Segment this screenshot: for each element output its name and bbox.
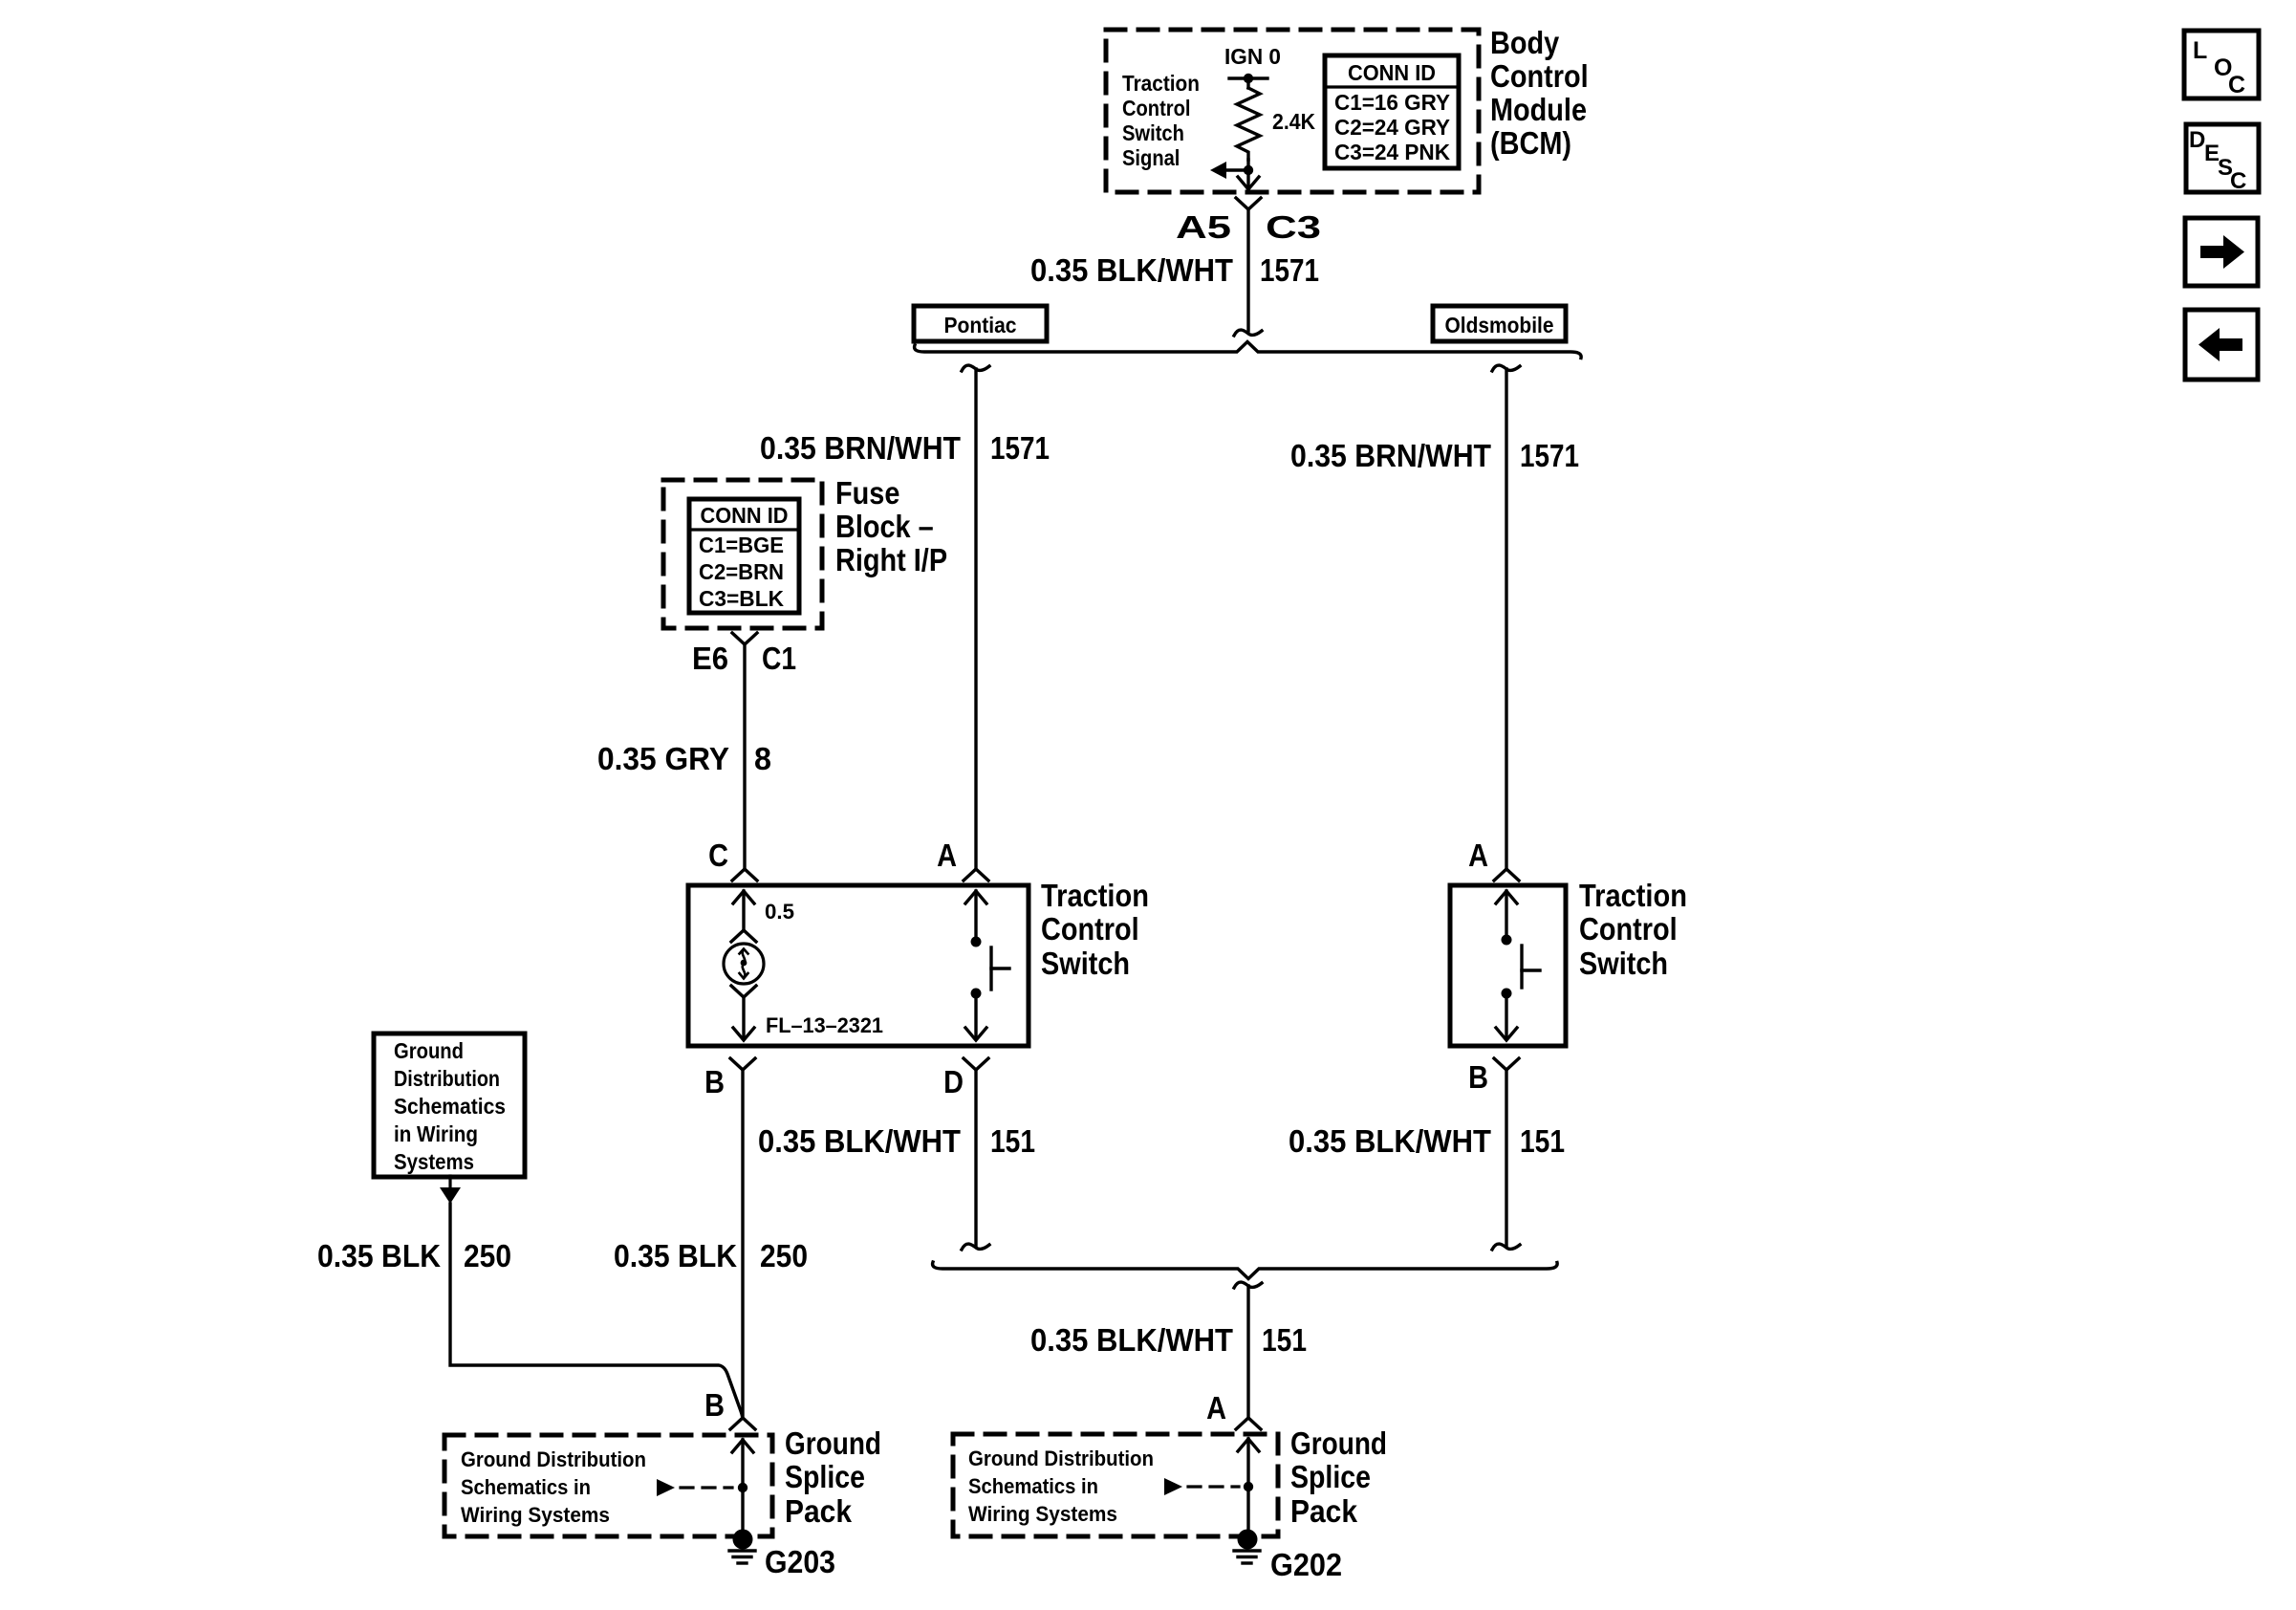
- resistor 2.4K: [1237, 88, 1260, 160]
- lamp (traction control indicator): [724, 944, 764, 984]
- switch contact (Oldsmobile): momentary pushbutton: [1502, 935, 1541, 999]
- svg-text:Control: Control: [1041, 911, 1139, 946]
- svg-text:D: D: [943, 1064, 964, 1099]
- svg-text:C3=24 PNK: C3=24 PNK: [1334, 140, 1450, 164]
- svg-text:151: 151: [990, 1123, 1035, 1159]
- svg-text:C: C: [708, 838, 728, 873]
- svg-text:CONN ID: CONN ID: [701, 503, 789, 528]
- svg-text:Ground Distribution: Ground Distribution: [968, 1447, 1154, 1470]
- svg-text:in Wiring: in Wiring: [394, 1121, 478, 1146]
- svg-text:Switch: Switch: [1122, 120, 1184, 145]
- svg-text:Traction: Traction: [1579, 878, 1687, 913]
- svg-text:Schematics in: Schematics in: [968, 1474, 1098, 1498]
- svg-text:B: B: [704, 1387, 725, 1423]
- svg-text:A: A: [1468, 838, 1488, 873]
- svg-text:Ground: Ground: [785, 1425, 881, 1461]
- next arrow button: [2185, 218, 2258, 286]
- wire label 0.35 BLK 250 (reference): [317, 1238, 511, 1273]
- wire: signal node to pin C3: [1246, 170, 1249, 188]
- svg-text:250: 250: [464, 1238, 511, 1273]
- svg-text:Control: Control: [1490, 58, 1589, 94]
- svg-text:Traction: Traction: [1041, 878, 1149, 913]
- svg-text:A5: A5: [1176, 209, 1231, 245]
- svg-text:Systems: Systems: [394, 1149, 474, 1174]
- svg-text:D: D: [2189, 127, 2205, 153]
- wire label 0.35 BLK/WHT 151 (Oldsmobile): [1289, 1123, 1565, 1159]
- svg-text:C: C: [2230, 168, 2246, 194]
- svg-text:Body: Body: [1490, 25, 1560, 60]
- svg-text:0.35 BRN/WHT: 0.35 BRN/WHT: [760, 430, 961, 466]
- svg-text:0.35 BLK: 0.35 BLK: [317, 1238, 441, 1273]
- svg-text:G203: G203: [765, 1544, 835, 1579]
- svg-text:Splice: Splice: [1290, 1459, 1371, 1494]
- previous arrow button: [2185, 310, 2258, 380]
- svg-text:1571: 1571: [1260, 252, 1319, 288]
- ground splice pack G202 dashed box: [953, 1434, 1278, 1536]
- svg-text:Block –: Block –: [835, 509, 934, 544]
- svg-text:0.35 BRN/WHT: 0.35 BRN/WHT: [1290, 438, 1491, 473]
- svg-text:Wiring Systems: Wiring Systems: [968, 1502, 1117, 1526]
- svg-text:C1=16 GRY: C1=16 GRY: [1334, 90, 1450, 115]
- svg-text:Splice: Splice: [785, 1459, 865, 1494]
- label: Ground Distribution Schematics in Wiring Systems (G203): [461, 1447, 646, 1527]
- svg-text:G202: G202: [1270, 1547, 1342, 1582]
- ground distribution schematics reference box: [374, 1033, 525, 1177]
- node: signal takeoff junction: [1244, 165, 1253, 175]
- wire: resistor to signal node: [1246, 160, 1249, 170]
- wire: 0.35 BLK/WHT 1571 from BCM: [1234, 209, 1262, 336]
- ground G202: [1234, 1530, 1260, 1564]
- svg-text:Switch: Switch: [1041, 946, 1130, 981]
- brace: Pontiac and Oldsmobile grounds merge: [933, 1262, 1558, 1279]
- svg-text:2.4K: 2.4K: [1272, 109, 1315, 134]
- svg-text:L: L: [2193, 37, 2207, 64]
- reference arrow to splice (G202): [1164, 1478, 1253, 1495]
- internal wire: contact to pin B (Oldsmobile): [1496, 993, 1517, 1040]
- svg-text:B: B: [704, 1064, 725, 1099]
- svg-text:C3: C3: [1266, 209, 1321, 245]
- svg-text:Schematics in: Schematics in: [461, 1475, 591, 1499]
- svg-text:Ground: Ground: [394, 1038, 464, 1063]
- svg-text:1571: 1571: [1520, 438, 1579, 473]
- svg-text:IGN 0: IGN 0: [1224, 44, 1281, 69]
- svg-text:Schematics: Schematics: [394, 1094, 506, 1119]
- svg-text:(BCM): (BCM): [1490, 125, 1571, 161]
- label: Ground Splice Pack (G203): [785, 1425, 881, 1529]
- wire: Oldsmobile branch 0.35 BRN/WHT 1571: [1492, 365, 1520, 881]
- svg-text:0.35 BLK/WHT: 0.35 BLK/WHT: [758, 1123, 961, 1159]
- svg-text:Pontiac: Pontiac: [944, 313, 1017, 337]
- brace: harness split to Pontiac and Oldsmobile: [915, 342, 1582, 359]
- svg-text:Control: Control: [1122, 96, 1191, 120]
- fuse block dashed box: [663, 480, 822, 628]
- traction control switch (Pontiac) box: [688, 885, 1029, 1046]
- svg-text:A: A: [1206, 1390, 1226, 1425]
- connector E6/C1 (fuse block): [692, 633, 796, 676]
- svg-text:Wiring Systems: Wiring Systems: [461, 1503, 610, 1527]
- internal wire: lamp to pin B: [733, 997, 754, 1040]
- svg-text:E6: E6: [692, 641, 728, 676]
- svg-text:Ground Distribution: Ground Distribution: [461, 1447, 646, 1471]
- svg-text:Switch: Switch: [1579, 946, 1668, 981]
- svg-text:Control: Control: [1579, 911, 1678, 946]
- svg-text:Traction: Traction: [1122, 71, 1200, 96]
- svg-text:Right I/P: Right I/P: [835, 542, 947, 577]
- traction control switch (Oldsmobile) box: [1450, 885, 1566, 1046]
- pin B (Pontiac switch): [704, 1058, 755, 1099]
- svg-text:C1=BGE: C1=BGE: [699, 533, 784, 557]
- svg-text:151: 151: [1262, 1322, 1307, 1358]
- internal wire: pin A to switch contact: [965, 891, 986, 941]
- wire: Pontiac branch 0.35 BRN/WHT 1571: [962, 365, 989, 881]
- connector table CONN ID (fuse block): [689, 499, 799, 613]
- ground G203: [729, 1530, 755, 1564]
- internal wire: pin A to contact (Oldsmobile): [1496, 891, 1517, 939]
- label: Ground Distribution Schematics in Wiring Systems (G202): [968, 1447, 1154, 1526]
- pin arrow at BCM edge: [1238, 177, 1259, 189]
- svg-text:C3=BLK: C3=BLK: [699, 586, 784, 611]
- wire label 0.35 GRY 8: [597, 741, 771, 776]
- svg-text:0.35 BLK/WHT: 0.35 BLK/WHT: [1030, 1322, 1233, 1358]
- reference arrow to splice (G203): [657, 1479, 747, 1496]
- arrow from reference box: [440, 1176, 461, 1204]
- svg-text:1571: 1571: [990, 430, 1050, 466]
- svg-text:8: 8: [754, 741, 771, 776]
- internal wire with splice junction (G203): [732, 1440, 753, 1530]
- ground splice pack G203 dashed box: [444, 1435, 772, 1536]
- wire: Oldsmobile pin B to merge brace, 0.35 BLK/WHT 151: [1492, 1070, 1520, 1250]
- svg-text:Module: Module: [1490, 92, 1587, 127]
- wire label 0.35 BLK/WHT 1571: [1030, 252, 1319, 288]
- switch contact (Pontiac): momentary pushbutton: [971, 937, 1010, 999]
- svg-text:0.5: 0.5: [765, 900, 794, 924]
- pin D (Pontiac switch): [943, 1058, 988, 1099]
- svg-text:CONN ID: CONN ID: [1348, 60, 1436, 85]
- svg-text:Pack: Pack: [1290, 1493, 1358, 1529]
- wire: 0.35 GRY 8 fuse block to switch pin C: [732, 644, 757, 881]
- svg-text:A: A: [937, 838, 957, 873]
- wire: Pontiac pin D to merge brace, 0.35 BLK/WHT 151: [962, 1070, 989, 1250]
- connector table CONN ID (BCM): [1325, 55, 1459, 168]
- wire: reference box to ground splice, 0.35 BLK 250: [450, 1204, 743, 1418]
- internal wire: pin C to lamp: [733, 891, 754, 930]
- label: Traction Control Switch (Oldsmobile): [1579, 878, 1687, 981]
- internal wire with splice junction (G202): [1238, 1439, 1259, 1530]
- svg-text:151: 151: [1520, 1123, 1565, 1159]
- svg-text:C2=BRN: C2=BRN: [699, 559, 784, 584]
- label: Fuse Block - Right I/P: [835, 475, 947, 577]
- internal wire: switch contact to pin D: [965, 993, 986, 1040]
- LOC button: [2184, 31, 2259, 98]
- internal connector Y below lamp: [731, 986, 756, 997]
- svg-text:C1: C1: [762, 641, 796, 676]
- svg-text:FL–13–2321: FL–13–2321: [766, 1013, 883, 1037]
- svg-text:B: B: [1468, 1059, 1488, 1095]
- svg-text:0.35 BLK/WHT: 0.35 BLK/WHT: [1030, 252, 1233, 288]
- svg-text:Oldsmobile: Oldsmobile: [1445, 313, 1554, 337]
- wire label 0.35 BRN/WHT 1571 (Pontiac): [760, 430, 1050, 466]
- pin B (Oldsmobile switch): [1468, 1058, 1519, 1095]
- wire: IGN 0 node to resistor: [1246, 78, 1249, 88]
- DESC button: [2186, 124, 2259, 194]
- label: Traction Control Switch Signal: [1122, 71, 1200, 170]
- node: IGN 0 junction: [1229, 74, 1267, 83]
- wire: merged 0.35 BLK/WHT 151 to ground splice pack G202: [1234, 1282, 1262, 1429]
- svg-text:0.35 BLK/WHT: 0.35 BLK/WHT: [1289, 1123, 1491, 1159]
- svg-text:Signal: Signal: [1122, 145, 1180, 170]
- wire: Pontiac pin B to ground splice, 0.35 BLK 250: [741, 1070, 744, 1418]
- svg-text:0.35 GRY: 0.35 GRY: [597, 741, 729, 776]
- label: Ground Splice Pack (G202): [1290, 1425, 1387, 1529]
- body control module (BCM) dashed box: [1106, 30, 1479, 192]
- svg-text:Fuse: Fuse: [835, 475, 899, 511]
- internal connector chevron above lamp: [731, 930, 756, 942]
- wire label 0.35 BLK/WHT 151 (merged): [1030, 1322, 1307, 1358]
- svg-text:C: C: [2228, 72, 2245, 98]
- wire label 0.35 BRN/WHT 1571 (Oldsmobile): [1290, 438, 1579, 473]
- label: Body Control Module (BCM): [1490, 25, 1589, 161]
- svg-text:C2=24 GRY: C2=24 GRY: [1334, 115, 1450, 140]
- svg-text:0.35 BLK: 0.35 BLK: [614, 1238, 737, 1273]
- signal arrow (to Traction Control Switch Signal): [1210, 162, 1248, 179]
- wire label 0.35 BLK/WHT 151 (Pontiac): [758, 1123, 1035, 1159]
- label box: Pontiac: [914, 306, 1047, 341]
- svg-text:Distribution: Distribution: [394, 1066, 500, 1091]
- pin B (ground splice pack G203): [704, 1387, 755, 1429]
- svg-text:250: 250: [760, 1238, 808, 1273]
- svg-text:Pack: Pack: [785, 1493, 853, 1529]
- connector A5/C3 (BCM to harness): [1176, 198, 1321, 245]
- label: Traction Control Switch (Pontiac): [1041, 878, 1149, 981]
- svg-text:Ground: Ground: [1290, 1425, 1387, 1461]
- wire label 0.35 BLK 250 (switch ground): [614, 1238, 808, 1273]
- label box: Oldsmobile: [1433, 306, 1566, 341]
